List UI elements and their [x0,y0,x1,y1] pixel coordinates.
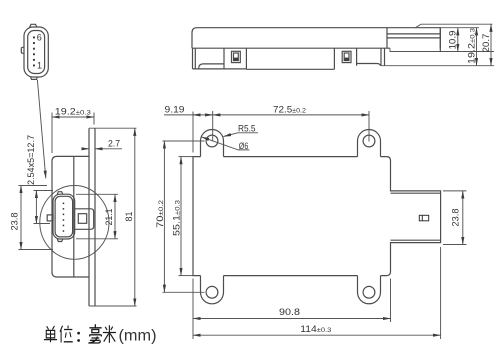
svg-text:23.8: 23.8 [9,213,19,231]
dim 19.2±0.3 ext line left (side view) [51,113,53,154]
dim 90.8 line [193,318,391,320]
top view latch bevel and top line with extension [415,24,492,28]
top view top edge extension line [440,27,479,29]
detail circle ellipse [40,186,109,260]
dim ext body right bottom [390,279,392,323]
top view lower: left foot vertical a [192,48,194,69]
top view body outline upper [192,28,440,49]
dim 9.19 arrow at body edge [193,114,200,116]
top view boss2 inner dark bottom [344,58,348,61]
label ø6 leader [202,137,250,150]
connector inner line top [391,192,441,194]
connector detail pin 2 [33,59,35,61]
svg-text:23.8: 23.8 [450,209,460,227]
side view connector face inner [55,196,73,237]
dim 70±0.2 line [163,141,165,292]
ear top-right [358,130,381,157]
top view lower: right foot vertical b [384,48,386,65]
ear top-left [201,130,224,157]
top view body/connector vertical split [386,28,388,49]
dim ext line at left hole center [212,111,214,142]
connector detail inner shell [28,31,45,74]
dim 2.7 arrows and line [83,148,90,150]
side view flange plate right edge [94,128,96,306]
top view connector rib line [387,37,440,39]
top view boss1 inner dark bottom [234,58,238,61]
top view right feet bottom with extension line [381,65,494,67]
connector detail pin 4 [33,48,35,50]
side view plate top edge with extension [89,127,137,129]
top view boss2 outer [342,51,351,62]
dim 19.2±0.3 ext line right (side view) [93,113,95,125]
ear bottom-left hole [206,286,218,298]
top view boss2 inner window [344,53,349,61]
svg-text:1: 1 [37,60,42,70]
side view housing block [52,156,89,277]
connector detail pin 6 [33,37,35,39]
top view inner line below top edge [387,33,440,35]
side view latch inner [78,214,86,224]
svg-text:114±0.3: 114±0.3 [300,324,331,334]
dim 9.19 ext line at body left [192,112,194,153]
dim 72.5±0.2 line [213,114,369,116]
CJK char 单 (dan) [44,326,57,342]
top view connector bottom edge with step and extension [390,48,494,51]
connector detail bottom bump [31,77,38,80]
ear top-right hole [363,135,375,147]
detail leader arrow to side view [37,80,45,179]
top view right recess line [357,64,380,66]
svg-text:55.1±0.3: 55.1±0.3 [171,200,181,236]
svg-text:R5.5: R5.5 [238,123,256,133]
top view lower: left foot vertical b [194,48,196,69]
svg-text:20.7: 20.7 [481,34,491,53]
dim 23.8 line (side view) [20,186,22,250]
dim 23.8 line (main view right) [462,191,464,245]
ear bottom-left [201,276,224,304]
connector detail pin 3 [33,53,35,55]
CJK fullwidth colon [77,332,80,342]
dim 9.19 arrow at hole center [206,114,213,116]
dim 2.54x5=12.7 ext bottom [34,223,51,225]
dim 20.7 line [490,24,492,65]
dim 2.54x5=12.7 ext top [34,190,54,192]
svg-text:10.9: 10.9 [448,31,458,50]
dim 23.8 ext top (main view right) [443,190,467,192]
connector pin symbol [419,215,428,221]
dim 81 line [134,128,136,306]
dim 55.1±0.3 ext top [179,156,194,158]
svg-text:90.8: 90.8 [279,307,300,317]
top view lower: recess wall [223,48,225,69]
ear bottom-right hole [363,286,375,298]
dim 55.1±0.3 ext bottom [179,275,194,277]
side view connector face outer [53,194,75,239]
top view lower: right foot vertical a [380,48,382,65]
CJK char 米 (mi) [103,325,116,343]
dim 19.2±0.3 line (top view) [476,28,478,66]
top view lower: recess wall left of boss2 [333,48,335,69]
connector inner line bottom [391,239,441,241]
ear top-left hole [206,135,218,147]
side view connector top bump [57,192,62,195]
label R5.5 leader [224,133,259,137]
dim ext body left bottom [192,279,194,340]
ear bottom-right [358,276,381,304]
svg-text:21.1: 21.1 [104,209,114,226]
top view bottom edge central section [246,68,334,70]
top view parting line [192,47,390,49]
dim 9.19 line [164,114,213,116]
svg-text:19.2±0.3: 19.2±0.3 [55,106,91,116]
dim 21.1 ext top [76,193,118,195]
side view connector bottom bump [57,239,62,242]
side view plate bottom edge with extension [89,305,137,307]
top view boss1 inner window [234,53,239,61]
dim ext line at right hole center [368,111,370,142]
dim 10.9 line [457,28,459,52]
top view left recess line [199,64,224,69]
dim 21.1 ext bottom [76,238,118,240]
connector detail pin 5 [33,42,35,44]
svg-text:Ø6: Ø6 [239,141,249,151]
side view flange plate left edge [88,128,90,306]
top view lower: wall right of boss2 [356,48,358,65]
connector detail outer shell [24,27,48,77]
svg-text:72.5±0.2: 72.5±0.2 [273,104,306,114]
top view boss1 outer [232,51,241,62]
dim 23.8 ext top (side view) [19,185,48,187]
dim 114±0.3 line [193,334,441,336]
dim 21.1 line [114,194,116,239]
dim 55.1±0.3 line [180,157,182,276]
svg-text:(mm): (mm) [119,328,157,345]
side view latch outer [75,209,94,230]
svg-text:19.2±0.3: 19.2±0.3 [466,28,476,64]
svg-text:70±0.2: 70±0.2 [155,200,165,228]
svg-text:2.7: 2.7 [108,138,120,148]
CJK char 毫 (hao) [88,324,101,343]
dim 23.8 ext bottom (side view) [19,249,54,251]
svg-text:9.19: 9.19 [165,104,185,114]
side view connector left tab [47,215,53,221]
top view bottom edge left section [193,68,247,70]
connector detail top bump [30,24,38,27]
dim 19.2±0.3 line (side view) [52,116,94,118]
side view housing step line [73,156,75,277]
connector detail left tab [21,47,24,53]
CJK char 位 (wei) [60,326,73,343]
svg-text:2.54x5=12.7: 2.54x5=12.7 [26,135,36,185]
main body outline [193,157,441,276]
top view connector right end [439,28,441,52]
dim 23.8 ext bottom (main view right) [443,244,467,246]
dim 70±0.2 ext top [163,140,205,142]
dim 70±0.2 ext bottom [163,291,205,293]
top view lower: recess wall right of boss1 [245,48,247,69]
side view pin dots [63,203,64,232]
svg-text:81: 81 [124,212,134,222]
svg-text:6: 6 [37,32,42,42]
dim ext connector right bottom [440,247,442,339]
connector detail pin 1 [33,65,35,67]
dim 2.54x5=12.7 line [35,191,37,224]
